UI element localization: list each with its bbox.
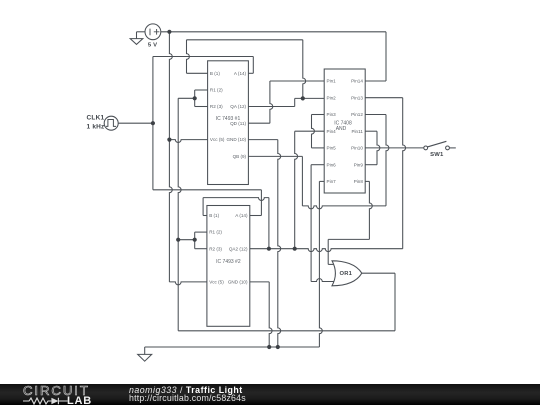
svg-text:Pin6: Pin6 [327,162,337,167]
svg-text:Vcc (5): Vcc (5) [210,137,225,142]
svg-text:Pin3: Pin3 [327,112,337,117]
svg-text:AND: AND [336,126,347,132]
svg-text:SW1: SW1 [430,152,444,158]
svg-text:IC 7493 #2: IC 7493 #2 [216,259,241,265]
svg-text:A (14): A (14) [234,71,247,76]
svg-text:B (1): B (1) [209,213,219,218]
svg-text:Pin13: Pin13 [351,95,363,100]
svg-text:Pin4: Pin4 [327,129,337,134]
svg-text:Pin11: Pin11 [351,129,363,134]
svg-text:R1 (2): R1 (2) [209,230,222,235]
svg-text:QB (9): QB (9) [233,154,247,159]
svg-text:Pin14: Pin14 [351,79,363,84]
svg-text:Pin9: Pin9 [354,162,364,167]
svg-text:Pin8: Pin8 [354,179,364,184]
svg-text:CLK1: CLK1 [87,115,105,122]
svg-text:Pin5: Pin5 [327,146,337,151]
svg-text:IC 7493 #1: IC 7493 #1 [216,116,241,122]
svg-text:GND (10): GND (10) [228,280,248,285]
svg-text:Pin12: Pin12 [351,112,363,117]
svg-text:Pin2: Pin2 [327,95,337,100]
svg-text:OR1: OR1 [340,271,353,277]
svg-text:Pin7: Pin7 [327,179,337,184]
svg-text:1 kHz: 1 kHz [87,124,106,131]
svg-text:5 V: 5 V [148,42,157,48]
svg-text:R1 (2): R1 (2) [210,88,223,93]
svg-text:Pin1: Pin1 [327,79,337,84]
svg-text:GND (10): GND (10) [226,137,246,142]
svg-text:Pin10: Pin10 [351,146,363,151]
svg-text:Vcc (5): Vcc (5) [209,280,224,285]
svg-text:QA (12): QA (12) [230,104,246,109]
svg-text:R2 (3): R2 (3) [210,104,223,109]
svg-text:B (1): B (1) [210,71,220,76]
svg-text:QA2 (12): QA2 (12) [229,246,248,251]
svg-text:A (14): A (14) [235,213,248,218]
svg-text:R2 (3): R2 (3) [209,246,222,251]
